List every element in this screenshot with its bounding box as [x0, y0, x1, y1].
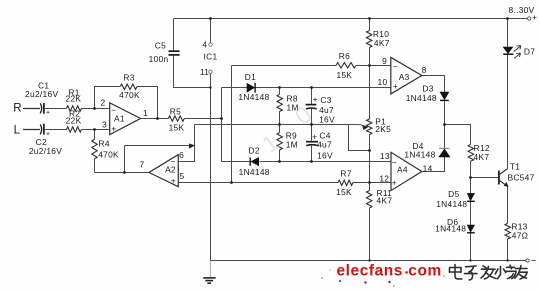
wire R13 to ground — [507, 239, 509, 261]
svg-text:D1: D1 — [245, 72, 256, 82]
op-amp A1 — [110, 103, 141, 135]
svg-text:+: + — [393, 81, 398, 91]
wire node to R12 — [445, 125, 471, 145]
wire IC1 pin4 stub — [210, 19, 212, 43]
wire A2 pin5 to R7 — [178, 182, 338, 184]
potentiometer P1 2K5 body — [367, 119, 372, 135]
wire C5 top column — [173, 19, 175, 51]
supply terminal circle — [528, 17, 531, 20]
junction P1 wiper return — [368, 149, 371, 152]
wire C1 to A1 pin2 — [45, 108, 67, 110]
op-amp A3 — [391, 57, 422, 94]
svg-text:7: 7 — [140, 160, 145, 170]
svg-text:4: 4 — [202, 39, 207, 49]
node A1 pin2 (R1/R3) — [93, 107, 96, 110]
junction ref line-C3 — [310, 123, 313, 126]
junction pin12 line-R11 — [368, 181, 371, 184]
svg-text:C3: C3 — [320, 95, 331, 105]
wire ground bus — [211, 260, 526, 262]
svg-text:3: 3 — [102, 120, 107, 130]
svg-text:10: 10 — [378, 77, 388, 87]
wire top supply rail — [174, 18, 528, 20]
wire R4 column — [94, 130, 96, 140]
wire C2 to A1 pin3 — [45, 129, 67, 131]
wire D1 anode — [222, 87, 248, 89]
svg-text:16V: 16V — [319, 115, 335, 125]
svg-text:+: + — [392, 177, 397, 187]
svg-text:22K: 22K — [65, 94, 81, 104]
wire mid reference line — [195, 124, 349, 126]
wire D4 to A4 output — [422, 157, 445, 172]
node A1 pin3 (R2/R4) — [93, 128, 96, 131]
wire R6 to A3 pin9 — [356, 65, 391, 67]
svg-text:2u2/16V: 2u2/16V — [29, 146, 62, 156]
svg-text:1N4148: 1N4148 — [238, 92, 269, 102]
svg-text:8: 8 — [422, 65, 427, 75]
resistor R6 15K — [336, 63, 356, 68]
svg-text:100n: 100n — [149, 54, 169, 64]
wire L input — [23, 129, 40, 131]
svg-text:5: 5 — [180, 171, 185, 181]
svg-text:−: − — [170, 157, 175, 167]
svg-text:R7: R7 — [340, 168, 351, 178]
resistor R3 470K — [120, 84, 137, 89]
svg-text:13: 13 — [380, 151, 390, 161]
LED D7 light arrows — [514, 46, 521, 59]
wire T1 emitter to R13 — [507, 186, 509, 223]
junction D1 line-R8 — [278, 86, 281, 89]
ground terminal circle — [526, 259, 529, 262]
watermark chinese 电子发烧友 — [450, 265, 528, 280]
junction A2 output-feedback — [123, 171, 126, 174]
resistor R13 47ohm — [505, 223, 510, 239]
wire A2 feedback arrow line — [125, 145, 191, 147]
junction D1 line-C3 — [310, 86, 313, 89]
svg-text:T1: T1 — [510, 162, 520, 172]
junction A1 output-R3 — [156, 117, 159, 120]
svg-text:4K7: 4K7 — [474, 152, 490, 162]
watermark elecfans.com — [321, 263, 445, 287]
wire C3 column — [311, 88, 313, 104]
junction rail-R10 — [368, 17, 371, 20]
wire C5 bottom to ground column — [174, 56, 211, 88]
diode D5 1N4148 — [467, 193, 475, 201]
svg-text:D5: D5 — [448, 189, 459, 199]
wire IC1 pin11 ground column — [210, 74, 212, 261]
svg-text:−: − — [111, 105, 116, 115]
svg-text:IC1: IC1 — [204, 52, 218, 62]
wire A3 output to D3 — [422, 76, 445, 93]
wire R input — [23, 108, 40, 110]
junction rail-D7 — [506, 17, 509, 20]
svg-text:R3: R3 — [123, 73, 134, 83]
svg-text:6: 6 — [179, 150, 184, 160]
resistor R2 22K — [66, 127, 81, 132]
svg-text:2: 2 — [101, 98, 106, 108]
junction pin9 line-R10/P1 — [368, 64, 371, 67]
svg-text:15K: 15K — [336, 70, 352, 80]
junction rail-IC1 pin4 — [209, 17, 212, 20]
svg-text:1N4148: 1N4148 — [404, 150, 435, 160]
svg-text:11: 11 — [200, 67, 209, 77]
wire D5 D6 column — [470, 202, 472, 225]
wire R9 column — [279, 125, 281, 133]
diode D2 1N4148 — [250, 158, 259, 166]
capacitor C2 2u2/16V — [40, 124, 44, 135]
wire P1 to R11 — [369, 135, 371, 191]
capacitor C1 2u2/16V — [40, 103, 44, 114]
wire R3 feedback loop — [95, 87, 121, 109]
wire D2 line to A4 pin13 — [222, 161, 250, 163]
IC1 pin 4 circle — [209, 43, 212, 46]
wire R5 to rectifier node — [184, 118, 221, 120]
svg-text:4K7: 4K7 — [374, 38, 390, 48]
wire D7 to T1 collector — [507, 55, 509, 169]
svg-text:L: L — [14, 124, 21, 136]
node D3/D4/R12 — [443, 123, 446, 126]
junction D2 line-R9 — [278, 160, 281, 163]
svg-text:470K: 470K — [98, 150, 119, 160]
svg-text:+: + — [111, 124, 116, 134]
svg-text:−: − — [392, 158, 397, 168]
op-amp A2 — [149, 155, 178, 187]
svg-text:14: 14 — [423, 164, 433, 174]
wire R8 column — [279, 88, 281, 95]
junction pin5 line-R6 column — [230, 181, 233, 184]
wire D1 cathode to A3 pin10 — [256, 87, 391, 89]
junction ground-D6 — [469, 259, 471, 261]
diode D6 1N4148 — [467, 225, 475, 233]
junction D2 line-C4 — [310, 160, 313, 163]
svg-text:1N4148: 1N4148 — [406, 93, 437, 103]
op-amp A4 — [391, 152, 422, 190]
svg-text:A4: A4 — [397, 165, 408, 175]
resistor R7 15K — [338, 180, 353, 185]
wire P1 wiper stub — [349, 125, 370, 151]
junction ground-R11 — [368, 259, 370, 261]
transistor T1 emitter arrow — [504, 182, 508, 186]
resistor R4 470K — [92, 139, 97, 159]
svg-text:D2: D2 — [249, 146, 260, 156]
svg-text:1N4148: 1N4148 — [436, 199, 467, 209]
wire P1 wiper arrow shaft — [349, 125, 365, 127]
svg-text:C5: C5 — [155, 41, 166, 51]
wire A1 output to R5 — [141, 118, 169, 120]
svg-text:1: 1 — [143, 108, 148, 118]
svg-text:8..30V: 8..30V — [508, 5, 534, 15]
svg-text:R: R — [13, 103, 22, 115]
svg-text:D7: D7 — [524, 47, 535, 57]
wire rectifier column D1-D2 — [221, 88, 223, 162]
svg-text:R4: R4 — [99, 138, 110, 148]
feedback arrowhead into A2 reference node — [189, 144, 194, 148]
wire R11 to ground — [369, 208, 371, 261]
wire R12 to T1 base node — [470, 161, 472, 193]
wire T1 base — [471, 177, 499, 179]
transistor T1 BC547 — [499, 169, 508, 187]
node R12/D5/T1 base — [469, 176, 472, 179]
diode D1 1N4148 — [247, 83, 255, 93]
resistor R8 1M — [277, 94, 282, 111]
svg-text:A3: A3 — [399, 72, 410, 82]
resistor R5 15K — [168, 116, 184, 121]
ground terminal dash — [532, 260, 536, 262]
diode D4 1N4148 — [439, 148, 450, 157]
P1 wiper arrowhead — [363, 125, 368, 130]
svg-text:1M: 1M — [287, 103, 299, 113]
svg-text:4u7: 4u7 — [317, 140, 332, 150]
svg-text:4K7: 4K7 — [377, 196, 393, 206]
svg-text:16V: 16V — [317, 151, 333, 161]
svg-text:R5: R5 — [170, 106, 181, 116]
wire D7 column — [507, 19, 509, 48]
junction ref line-R8 — [278, 123, 281, 126]
svg-text:+: + — [313, 94, 318, 104]
wire R10 column — [369, 19, 371, 31]
resistor R9 1M — [277, 133, 282, 151]
svg-text:R6: R6 — [339, 51, 350, 61]
junction ground-R13 — [506, 259, 508, 261]
wire R10 to P1 — [369, 66, 371, 120]
svg-text:+: + — [171, 176, 176, 186]
svg-text:1N4148: 1N4148 — [435, 224, 466, 234]
svg-text:−: − — [393, 62, 398, 72]
resistor R1 22K — [66, 106, 81, 111]
svg-text:2K5: 2K5 — [375, 124, 391, 134]
svg-text:2u2/16V: 2u2/16V — [25, 89, 58, 99]
svg-text:22K: 22K — [66, 116, 82, 126]
resistor R10 4K7 — [367, 31, 372, 48]
svg-text:com: com — [408, 263, 442, 280]
svg-text:470K: 470K — [119, 90, 140, 100]
svg-text:+: + — [532, 12, 537, 22]
faint watermark smudges — [245, 101, 317, 180]
wire A2 feedback riser — [124, 146, 126, 173]
svg-text:1M: 1M — [286, 140, 298, 150]
junction R5-rectifier node — [220, 117, 223, 120]
wire A2 pin6 riser — [179, 125, 194, 162]
svg-text:15K: 15K — [169, 122, 185, 132]
svg-text:BC547: BC547 — [507, 173, 534, 183]
wire C4 column — [311, 125, 313, 141]
capacitor C5 100n — [169, 51, 180, 55]
resistor R11 4K7 — [367, 191, 372, 209]
wire D3 to D4 node — [444, 101, 446, 148]
svg-text:D3: D3 — [422, 84, 433, 94]
svg-text:elecfans: elecfans — [337, 263, 403, 280]
IC1 pin 11 circle — [209, 70, 212, 73]
svg-text:47Ω: 47Ω — [512, 231, 528, 241]
wire pin9 line to R6 — [232, 65, 337, 67]
resistor R12 4K7 — [468, 144, 473, 161]
capacitor C4 4u7/16V — [306, 142, 318, 146]
wire R7 to A4 pin12 — [353, 182, 391, 184]
capacitor C3 4u7/16V — [306, 105, 317, 109]
ground symbol — [203, 261, 215, 284]
junction C5-ground column — [209, 86, 211, 88]
svg-text:12: 12 — [379, 173, 389, 183]
svg-text:15K: 15K — [336, 187, 352, 197]
polarity marks C1 C2 — [47, 111, 50, 135]
LED D7 — [503, 47, 513, 54]
wire comparator column — [231, 66, 233, 183]
diode D3 1N4148 — [440, 92, 449, 100]
wire A2 output line — [95, 172, 150, 174]
svg-text:1N4148: 1N4148 — [239, 167, 270, 177]
svg-text:4u7: 4u7 — [319, 105, 334, 115]
svg-text:9: 9 — [382, 56, 387, 66]
